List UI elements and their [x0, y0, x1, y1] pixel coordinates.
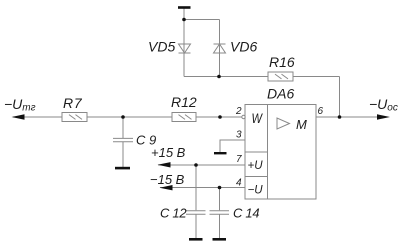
junction node R7/C9	[121, 115, 125, 119]
svg-text:7: 7	[236, 154, 242, 165]
arrow -Uoc output right	[377, 114, 390, 119]
op-amp U=DA6 body	[245, 105, 316, 200]
svg-text:−Uтг: −Uтг	[4, 96, 36, 114]
wire diode bottom line to R16	[184, 76, 268, 78]
ground bar below C9	[115, 167, 130, 170]
pin 7 wire +15V	[158, 164, 245, 166]
svg-text:6: 6	[318, 106, 324, 117]
junction node R12/pin2	[218, 115, 222, 119]
svg-text:R16: R16	[269, 54, 295, 70]
wire C12 to ground	[195, 214, 197, 238]
op-amp triangle symbol	[277, 118, 290, 129]
svg-text:+15 В: +15 В	[151, 145, 186, 160]
pin 3 wire to ground	[220, 140, 245, 152]
pin 4 wire -15V	[160, 187, 245, 189]
capacitor C14	[210, 211, 230, 214]
svg-text:VD6: VD6	[230, 39, 257, 55]
wire main input line left segment	[13, 116, 62, 118]
junction node -15/C14	[218, 186, 222, 190]
wire feedback vertical	[339, 77, 341, 118]
junction node output/feedback	[338, 115, 342, 119]
svg-text:R12: R12	[171, 94, 197, 110]
diode VD5	[179, 44, 191, 53]
capacitor C14 branch wire upper	[219, 188, 221, 211]
svg-text:−U: −U	[248, 185, 264, 197]
svg-text:VD5: VD5	[148, 39, 175, 55]
junction node top rail	[182, 18, 186, 22]
wire top rail vertical VD5 branch	[183, 9, 185, 77]
resistor R16	[268, 72, 293, 81]
svg-text:2: 2	[235, 106, 242, 117]
ground bar below C14	[213, 238, 227, 241]
svg-text:W: W	[252, 110, 264, 126]
wire C9 to ground	[122, 142, 124, 167]
svg-text:3: 3	[236, 130, 242, 141]
resistor R12	[172, 113, 196, 122]
arrow -Utg left	[12, 114, 25, 119]
wire R16 to feedback corner	[293, 76, 340, 78]
capacitor C9	[113, 138, 133, 141]
svg-text:C 12: C 12	[160, 206, 187, 221]
wire C14 to ground	[219, 214, 221, 238]
capacitor C12 branch wire upper	[195, 165, 197, 210]
arrow -15V	[160, 185, 173, 190]
resistor R7	[62, 113, 87, 122]
wire VD6 branch vertical	[219, 20, 221, 77]
svg-text:M: M	[296, 117, 307, 132]
svg-text:C 14: C 14	[233, 206, 259, 221]
svg-text:DA6: DA6	[267, 86, 294, 102]
arrow +15V	[158, 162, 171, 167]
pin 2 inversion circle	[242, 115, 245, 118]
ground bar pin 3	[214, 152, 227, 154]
wire R12 to pin2	[196, 116, 242, 118]
junction node diode bottom line	[217, 75, 221, 79]
svg-text:−Uос: −Uос	[369, 96, 398, 114]
diode VD6	[214, 44, 226, 53]
power rail bar top	[178, 6, 191, 9]
wire C9 branch vertical	[122, 117, 124, 138]
svg-text:+U: +U	[248, 160, 264, 172]
svg-text:−15 В: −15 В	[150, 172, 185, 187]
wire top rail horizontal	[184, 19, 220, 21]
wire R7 to R12	[87, 116, 172, 118]
ground bar below C12	[189, 238, 203, 241]
junction node +15/C12	[194, 163, 198, 167]
pin 6 output wire	[316, 116, 378, 118]
svg-text:4: 4	[236, 178, 242, 189]
svg-text:R7: R7	[63, 95, 83, 111]
capacitor C12	[186, 211, 206, 214]
